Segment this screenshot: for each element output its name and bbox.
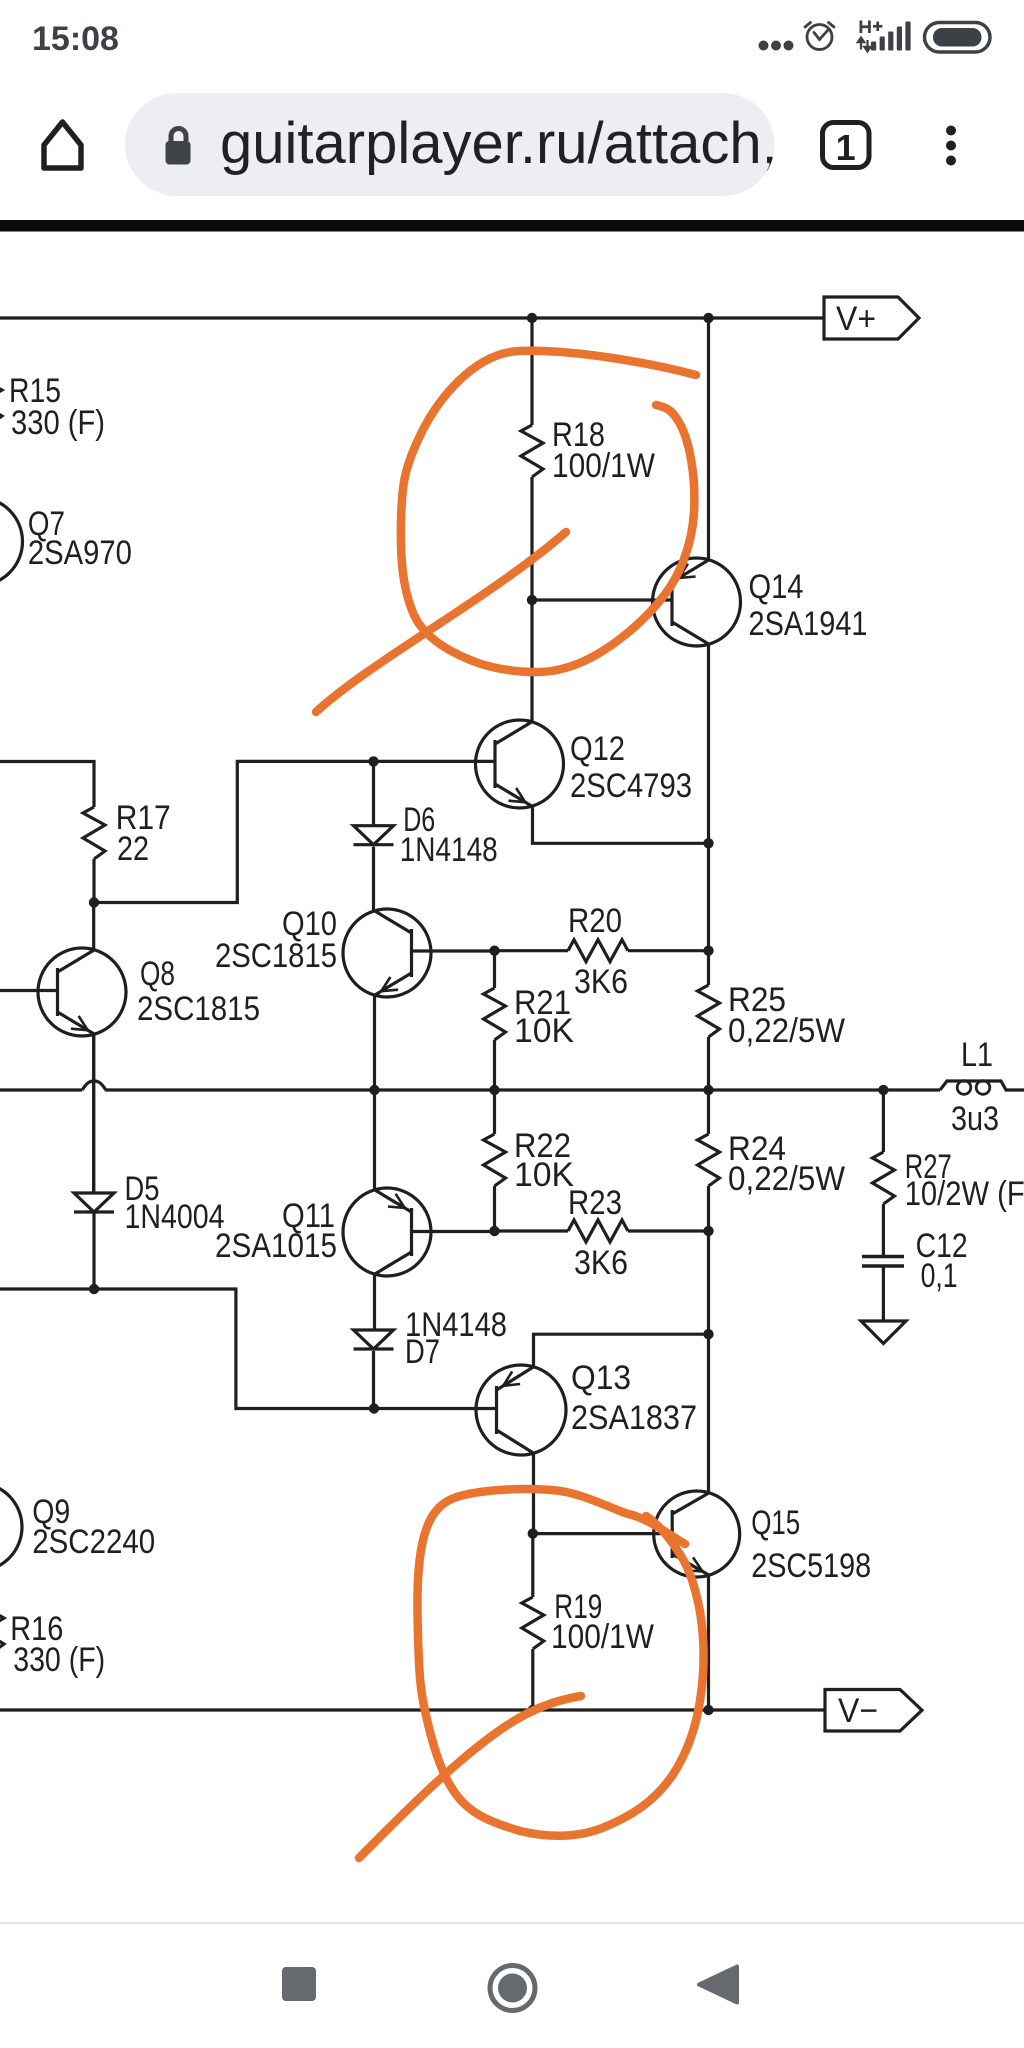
wire output line left	[0, 1088, 82, 1091]
resistor R16 (partial)	[0, 1600, 4, 1652]
wire D5 anode top	[92, 1034, 95, 1193]
node output / Q10 Q11 emitters	[369, 1085, 379, 1095]
svg-text:2SC1815: 2SC1815	[137, 990, 260, 1028]
wire right rail top segment	[707, 318, 710, 560]
svg-text:Q8: Q8	[140, 955, 175, 993]
svg-text:Q12: Q12	[570, 730, 625, 768]
svg-text:V−: V−	[838, 1692, 878, 1730]
orange circle annotation around R18	[401, 351, 696, 672]
node Q13 collector / R19 / Q15 base	[528, 1528, 538, 1538]
status bar signal bars	[871, 22, 911, 51]
node V- rail / R19	[528, 1705, 538, 1715]
node D7 / Q13 base wire	[369, 1403, 379, 1413]
svg-text:22: 22	[117, 830, 149, 868]
svg-text:Q13: Q13	[571, 1359, 631, 1397]
resistor R21	[484, 951, 506, 1090]
nav bar separator	[0, 1922, 1024, 1924]
svg-text:2SA1941: 2SA1941	[749, 605, 868, 643]
browser url pill	[125, 93, 775, 196]
resistor R23	[568, 1220, 628, 1242]
inductor L1	[940, 1081, 1024, 1095]
diode D6 1N4148	[354, 826, 394, 845]
node top rail / right rail	[703, 313, 713, 323]
wire R20 right stub	[628, 949, 709, 952]
browser home button	[44, 122, 81, 168]
transistor Q14 2SA1941	[653, 558, 741, 646]
svg-text:Q14: Q14	[749, 568, 804, 606]
wire node to Q15 base	[533, 1532, 671, 1535]
node R17 / Q8 collector	[89, 897, 99, 907]
svg-text:D7: D7	[405, 1333, 440, 1371]
svg-text:10/2W (F: 10/2W (F	[905, 1175, 1024, 1213]
node right rail / Q13 emitter	[703, 1329, 713, 1339]
svg-text:1: 1	[836, 127, 856, 168]
resistor R25	[698, 985, 720, 1037]
wire D7 to node	[372, 1351, 375, 1409]
resistor R24	[698, 1134, 720, 1186]
node output / R21 R22	[489, 1085, 499, 1095]
wire Q11 base to R23 node	[412, 1230, 495, 1233]
svg-text:1N4004: 1N4004	[125, 1198, 225, 1236]
svg-text:Q15: Q15	[751, 1504, 800, 1542]
node right rail / Q12 emitter	[703, 838, 713, 848]
wire Q8 emitter down to D5	[92, 1034, 95, 1193]
transistor Q9 2SC2240 (partial)	[0, 1483, 22, 1571]
wire R23 right stub	[628, 1229, 709, 1232]
nav back triangle button	[699, 1967, 737, 2003]
wire D5 to lower node	[92, 1212, 95, 1289]
svg-text:2SC5198: 2SC5198	[751, 1547, 871, 1585]
wire right rail Q14-to-R25	[707, 645, 710, 986]
node right rail / R23	[703, 1226, 713, 1236]
browser lock icon	[166, 129, 191, 165]
wire R23 left stub	[495, 1229, 569, 1232]
transistor Q11 2SA1015	[343, 1188, 431, 1276]
node R23 left / R22 / Q11 base	[489, 1226, 499, 1236]
transistor Q8 2SC1815	[38, 948, 126, 1036]
svg-text:0,22/5W: 0,22/5W	[728, 1012, 845, 1050]
wire R20 left stub	[495, 949, 569, 952]
nav home circle button	[490, 1966, 535, 2011]
transistor Q7 2SA970 (partial)	[0, 498, 23, 586]
svg-text:10K: 10K	[514, 1156, 574, 1194]
wire R17 to node	[92, 859, 95, 903]
resistor R19	[522, 1534, 544, 1710]
wire right rail Q15 to V-	[707, 1575, 710, 1710]
wire Q10 emitter to output	[373, 995, 376, 1091]
wire output to Q11 emitter	[373, 1090, 376, 1191]
status bar notification dots	[759, 41, 794, 51]
svg-text:3u3: 3u3	[951, 1100, 999, 1138]
orange circle annotation around R19	[417, 1489, 703, 1836]
wire V+ top rail	[0, 316, 824, 319]
wire Q14 base	[532, 598, 672, 601]
svg-text:10K: 10K	[514, 1012, 574, 1050]
svg-text:330 (F): 330 (F)	[11, 404, 105, 442]
node D5 / lower wire	[89, 1284, 99, 1294]
wire R18 branch upper	[530, 318, 533, 425]
svg-text:0,1: 0,1	[921, 1257, 958, 1295]
V+ power flag	[824, 297, 919, 339]
resistor R18	[521, 425, 543, 477]
wire output line main	[105, 1088, 940, 1091]
node right rail / R20	[703, 946, 713, 956]
wire Q8 collector up	[92, 903, 95, 951]
svg-text:3K6: 3K6	[574, 963, 628, 1001]
svg-text:1N4148: 1N4148	[400, 831, 498, 869]
V- power flag	[825, 1690, 922, 1732]
wire lower-left L path to Q13 base	[0, 1289, 496, 1409]
svg-text:100/1W: 100/1W	[552, 447, 655, 485]
transistor Q10 2SC1815	[343, 909, 431, 997]
node V- rail / right rail	[703, 1705, 713, 1715]
capacitor C12	[862, 1257, 904, 1322]
wire Q8 base	[0, 989, 58, 992]
nav square button	[282, 1967, 316, 2001]
transistor Q13 2SA1837	[476, 1365, 566, 1455]
browser tab counter button	[823, 123, 870, 169]
wire Q11 collector to D7	[373, 1274, 376, 1331]
status bar battery icon	[925, 23, 991, 53]
status bar network arrows	[858, 38, 871, 52]
wire D6 to Q10 collector	[372, 847, 375, 912]
wire output line hop over Q8 emitter	[82, 1081, 106, 1090]
svg-text:2SC2240: 2SC2240	[32, 1523, 155, 1561]
wire Q10 base to R20 node	[412, 949, 495, 952]
wire Q12 emitter to right rail	[533, 806, 709, 844]
node R20 left / R21 / Q10 base	[489, 946, 499, 956]
browser url text	[220, 111, 778, 176]
node top rail / R18	[527, 313, 537, 323]
svg-text:330 (F): 330 (F)	[13, 1641, 105, 1679]
svg-text:2SA1015: 2SA1015	[215, 1227, 337, 1265]
status bar alarm icon	[805, 23, 834, 50]
diode D5 1N4004	[74, 1193, 114, 1212]
black divider bar	[0, 220, 1024, 232]
svg-text:2SC1815: 2SC1815	[215, 937, 337, 975]
resistor R20	[568, 940, 628, 962]
wire left feed to R17	[0, 762, 94, 808]
orange slash annotation bottom	[359, 1696, 581, 1858]
wire node to Q12 base (L path)	[94, 761, 494, 902]
resistor R27	[872, 1090, 894, 1257]
ground symbol	[861, 1321, 906, 1344]
resistor R15 (partial)	[0, 372, 2, 424]
svg-text:R23: R23	[568, 1184, 622, 1222]
transistor Q15 2SC5198	[654, 1491, 740, 1577]
svg-text:100/1W: 100/1W	[551, 1618, 654, 1656]
wire Q13 collector down	[532, 1453, 535, 1534]
node output / L1 R27	[878, 1085, 888, 1095]
diode D7 1N4148	[354, 1330, 394, 1349]
wire Q13 emitter up to rail	[534, 1334, 709, 1367]
svg-text:R20: R20	[568, 902, 622, 940]
orange slash annotation top	[316, 532, 566, 712]
node right rail / output line	[703, 1085, 713, 1095]
svg-text:3K6: 3K6	[574, 1244, 628, 1282]
svg-text:V+: V+	[836, 300, 876, 338]
svg-text:0,22/5W: 0,22/5W	[728, 1160, 845, 1198]
resistor R22	[484, 1090, 506, 1231]
svg-text:2SA970: 2SA970	[28, 534, 132, 572]
status bar H+ network text	[860, 21, 883, 34]
transistor Q12 2SC4793	[476, 720, 564, 808]
svg-text:L1: L1	[961, 1036, 993, 1074]
wire D6 anode	[372, 761, 375, 825]
wire R18 to Q12 collector	[530, 477, 533, 722]
node R18 / Q14 base	[527, 595, 537, 605]
wire right rail R25 to R24	[707, 1037, 710, 1134]
resistor R17	[83, 807, 105, 859]
svg-text:2SA1837: 2SA1837	[571, 1399, 697, 1437]
node D6 top / Q12 base	[368, 756, 378, 766]
svg-text:15:08: 15:08	[32, 20, 119, 58]
svg-text:2SC4793: 2SC4793	[570, 767, 692, 805]
wire right rail R24 down	[707, 1186, 710, 1493]
svg-text:guitarplayer.ru/attach,: guitarplayer.ru/attach,	[220, 111, 778, 176]
browser menu dots	[946, 126, 956, 166]
wire V- bottom rail	[0, 1708, 825, 1711]
